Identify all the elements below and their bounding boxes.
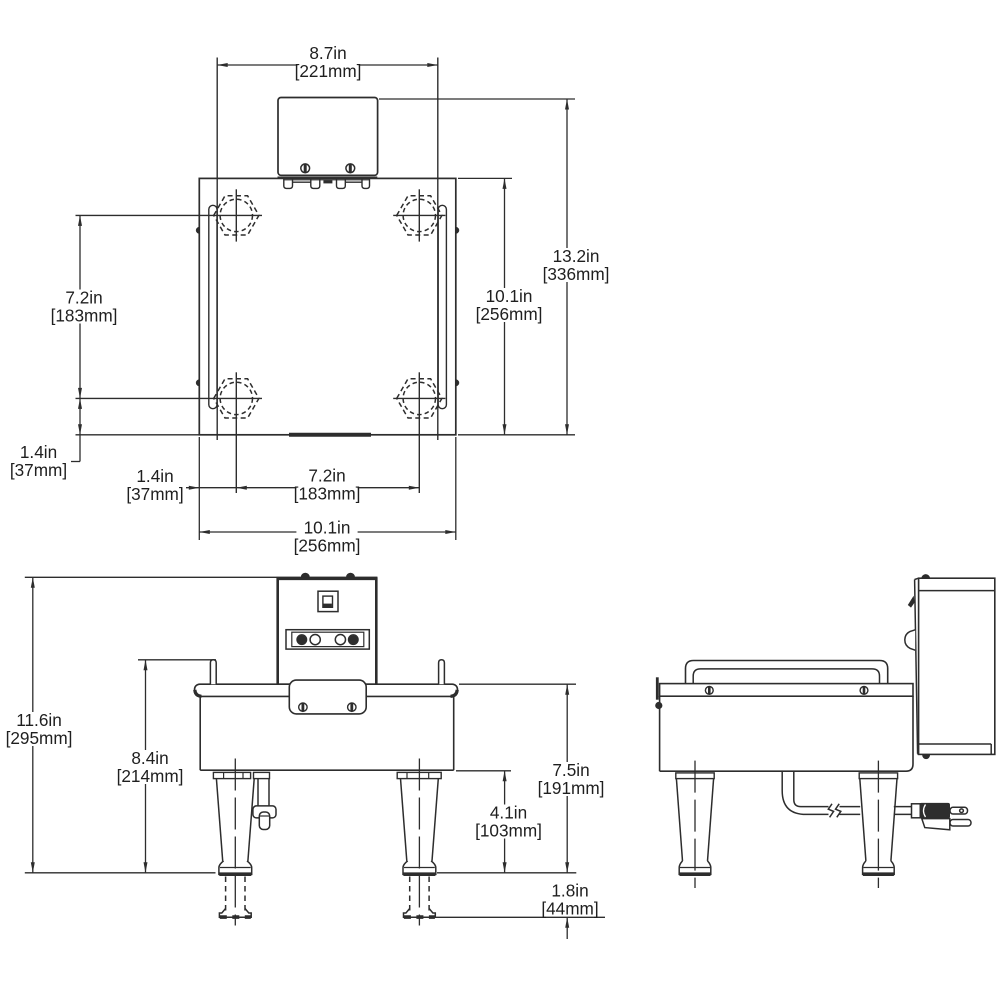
svg-text:[295mm]: [295mm]: [6, 728, 73, 748]
svg-text:13.2in: 13.2in: [553, 246, 600, 266]
svg-text:[191mm]: [191mm]: [538, 778, 605, 798]
svg-text:[256mm]: [256mm]: [476, 304, 543, 324]
svg-text:7.2in: 7.2in: [308, 466, 345, 486]
svg-text:[37mm]: [37mm]: [10, 460, 67, 480]
svg-text:8.7in: 8.7in: [309, 43, 346, 63]
svg-text:1.4in: 1.4in: [20, 442, 57, 462]
svg-text:1.8in: 1.8in: [551, 881, 588, 901]
svg-text:7.2in: 7.2in: [65, 288, 102, 308]
svg-text:10.1in: 10.1in: [304, 518, 351, 538]
svg-text:8.4in: 8.4in: [131, 748, 168, 768]
svg-text:4.1in: 4.1in: [490, 803, 527, 823]
svg-text:[37mm]: [37mm]: [126, 484, 183, 504]
svg-text:11.6in: 11.6in: [16, 710, 62, 730]
svg-text:[256mm]: [256mm]: [294, 536, 361, 556]
svg-text:1.4in: 1.4in: [136, 466, 173, 486]
svg-text:7.5in: 7.5in: [552, 760, 589, 780]
svg-text:[183mm]: [183mm]: [51, 306, 118, 326]
svg-text:[103mm]: [103mm]: [475, 821, 542, 841]
svg-text:[44mm]: [44mm]: [541, 899, 598, 919]
svg-text:[214mm]: [214mm]: [117, 766, 184, 786]
svg-text:[336mm]: [336mm]: [543, 264, 610, 284]
svg-text:[183mm]: [183mm]: [294, 484, 361, 504]
svg-text:10.1in: 10.1in: [486, 286, 533, 306]
svg-text:[221mm]: [221mm]: [295, 61, 362, 81]
